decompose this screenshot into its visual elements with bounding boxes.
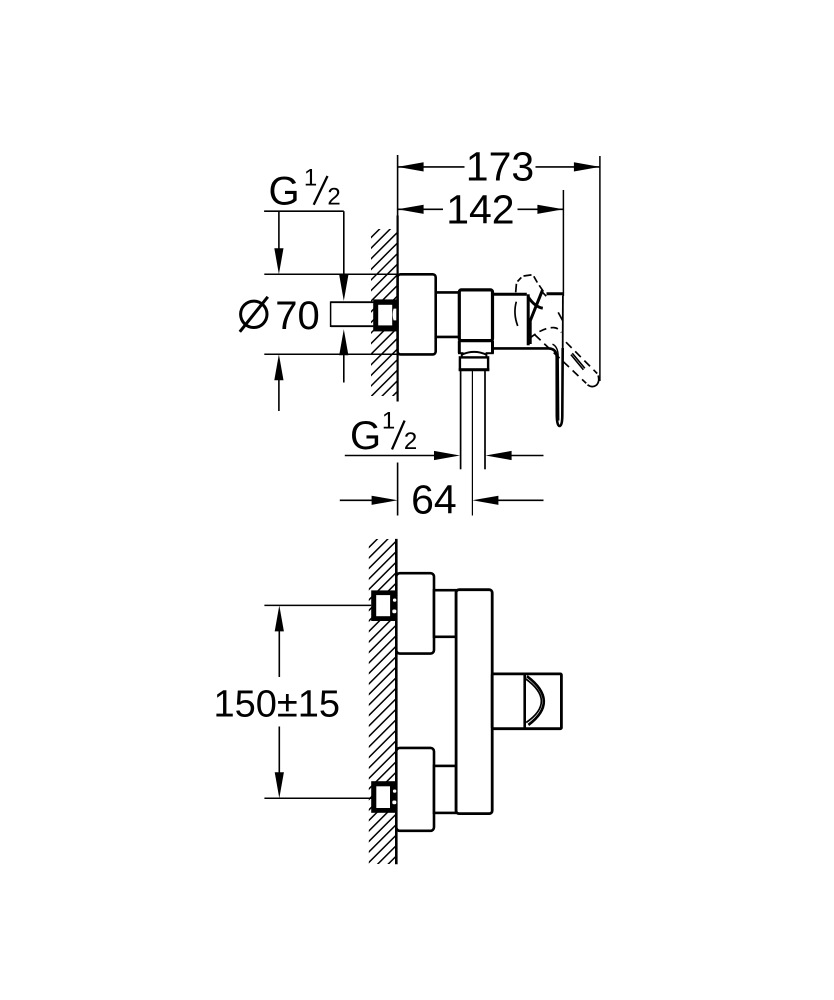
outlet shoulder	[462, 352, 487, 357]
svg-text:2: 2	[327, 183, 340, 210]
supply pipe lower arrow	[339, 329, 348, 355]
dim 173 line	[398, 166, 465, 168]
dim 173 extension line right	[599, 156, 601, 381]
handle junction line	[523, 674, 526, 729]
wall surface line (upper view)	[397, 216, 399, 402]
dim 70 arrow bottom	[274, 354, 283, 380]
svg-text:64: 64	[411, 477, 457, 523]
lever raised rear outline (dashed)	[515, 284, 518, 293]
dome arc	[515, 302, 518, 326]
lower connector nut	[434, 766, 456, 813]
wall extension line up	[397, 155, 399, 216]
dome cross detail	[528, 297, 543, 309]
handle crescent	[527, 676, 544, 725]
body neck lines	[436, 291, 460, 294]
dim 70 extension bottom	[264, 353, 397, 355]
svg-text:150±15: 150±15	[214, 684, 341, 726]
G1/2 upper leader	[343, 211, 345, 278]
outlet pipe	[460, 371, 462, 470]
housing skirt	[458, 341, 461, 354]
G1/2 mid leader right	[500, 455, 544, 457]
svg-text:70: 70	[275, 294, 320, 338]
dim 150 extension bottom	[264, 797, 372, 799]
handle (lower view)	[492, 674, 561, 729]
dim 64 line	[340, 499, 380, 501]
svg-text:2: 2	[404, 428, 417, 455]
label G1/2 upper underline	[264, 210, 344, 212]
lever raised short dash	[558, 312, 562, 320]
G1/2 mid leader left	[345, 455, 445, 457]
svg-text:173: 173	[466, 143, 534, 189]
valve body top edge	[493, 293, 527, 296]
handle top edge	[547, 292, 563, 295]
svg-text:G: G	[269, 169, 300, 213]
upper union block	[371, 590, 396, 621]
lower union block	[371, 781, 396, 813]
dim 70 extension top	[264, 273, 397, 275]
dim 70 arrow top	[278, 211, 280, 251]
svg-text:1: 1	[304, 164, 317, 191]
valve body end cap	[527, 294, 530, 345]
lever raised pivot arc (dashed)	[530, 328, 562, 339]
supply pipe nipple	[331, 301, 374, 303]
cartridge housing	[459, 290, 492, 341]
lever raised upper edge (dashed)	[566, 342, 597, 373]
lever raised tip hook	[588, 376, 599, 387]
outlet nut	[460, 357, 488, 369]
dim 142 extension line right	[562, 190, 564, 296]
outlet pipe centre line	[471, 371, 473, 516]
svg-text:142: 142	[446, 186, 514, 232]
dim 150 line	[275, 605, 284, 631]
lever (closed position)	[493, 348, 563, 426]
dim 70 text	[241, 301, 267, 327]
dim 64 extension left	[397, 463, 399, 516]
lever raised inner double line	[572, 353, 585, 368]
wall surface line (lower view)	[395, 539, 398, 864]
upper union rosette	[396, 573, 434, 653]
lever raised lower edge (dashed)	[535, 335, 586, 384]
lower union rosette	[396, 748, 434, 831]
wall union block	[373, 299, 397, 331]
mixer body (lower view)	[456, 590, 492, 814]
upper connector nut	[434, 590, 456, 637]
dim 142 line	[398, 208, 443, 210]
svg-text:1: 1	[382, 408, 395, 435]
dim 150 extension top	[264, 604, 371, 606]
svg-text:G: G	[350, 414, 381, 458]
escutcheon flange	[398, 274, 436, 354]
